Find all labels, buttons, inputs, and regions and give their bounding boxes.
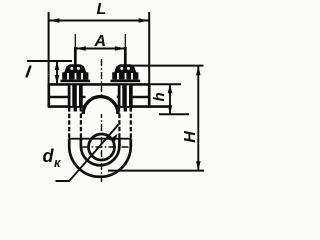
- label l: [27, 67, 31, 77]
- thread run-out dashes below bar left: [68, 108, 70, 112]
- vertical center line: [101, 59, 103, 182]
- crossbar bottom edge right part: [117, 105, 168, 108]
- strap bend outer: [69, 139, 131, 177]
- strap left leg inner (threaded, dashed): [80, 114, 82, 140]
- nut U1 dome (left bolt): [64, 64, 87, 73]
- crossbar right edge: [148, 84, 151, 108]
- leader dk line: [69, 125, 119, 182]
- bolt tip / A extension left: [74, 34, 76, 48]
- dimension L line: [49, 20, 149, 22]
- dimension A line: [75, 48, 125, 50]
- thread column left in crossbar: [68, 85, 83, 111]
- pipe circle dk: [89, 134, 115, 160]
- strap right leg inner (threaded, dashed): [118, 114, 120, 140]
- thread column right in crossbar: [118, 85, 133, 111]
- crossbar top edge: [48, 83, 150, 86]
- strap bend inner: [81, 139, 120, 166]
- strap right leg outer (threaded, dashed): [130, 107, 132, 139]
- leader dk shelf: [56, 180, 70, 182]
- svg-text:H: H: [182, 131, 199, 143]
- dimension l arrow line: [56, 61, 58, 84]
- dimension A arrow left: [75, 46, 86, 51]
- nut U2 dome (right bolt): [114, 64, 137, 73]
- svg-text:L: L: [97, 1, 107, 18]
- crossbar middle line right part: [117, 96, 150, 99]
- dimension H line: [197, 66, 199, 170]
- crossbar bottom edge left part: [48, 105, 86, 108]
- dimension L extension line right: [148, 12, 150, 84]
- dimension H top extension: [131, 65, 204, 67]
- dimension H bottom extension: [108, 170, 204, 172]
- leader dk arrowhead: [109, 134, 117, 142]
- nut U2 washer: [110, 80, 140, 83]
- crossbar left edge: [47, 84, 50, 108]
- svg-text:A: A: [94, 33, 107, 50]
- nut U1 washer: [60, 80, 90, 83]
- dimension h bottom extension: [159, 113, 189, 115]
- bolt tip / A extension right: [124, 34, 126, 48]
- nut U1 body: [62, 72, 88, 79]
- dimension h arrow line: [169, 84, 171, 114]
- strap left leg outer (threaded, dashed): [68, 107, 70, 139]
- svg-text:h: h: [151, 92, 168, 101]
- thread run-out dashes below bar right: [118, 108, 120, 112]
- crossbar middle line left part: [48, 96, 86, 99]
- nut U2 body: [112, 72, 138, 79]
- dimension A arrow right: [115, 46, 126, 51]
- dimension L arrow right: [139, 18, 150, 23]
- dimension L extension line left: [48, 12, 50, 84]
- dimension h top extension: [150, 83, 181, 85]
- dimension L arrow left: [49, 18, 60, 23]
- dimension l extension line: [27, 60, 72, 62]
- svg-text:d: d: [43, 146, 55, 166]
- arch of strap under crossbar: [83, 97, 118, 114]
- horizontal center line: [83, 146, 131, 148]
- thread end line: [69, 138, 131, 140]
- dimension l arrowheads: [55, 61, 60, 84]
- svg-text:к: к: [54, 156, 61, 170]
